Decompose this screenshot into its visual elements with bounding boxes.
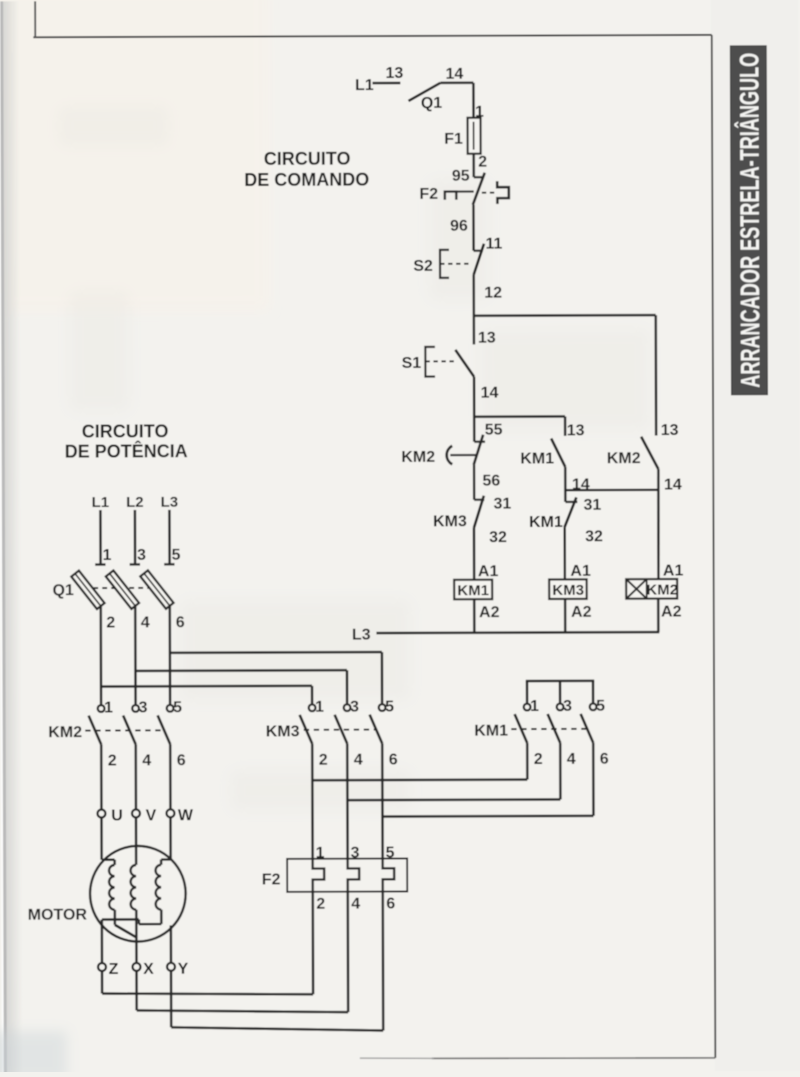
svg-text:31: 31	[493, 495, 511, 512]
svg-text:F2: F2	[262, 871, 281, 888]
svg-text:L1: L1	[355, 77, 374, 94]
svg-text:4: 4	[354, 751, 363, 768]
svg-text:KM2: KM2	[401, 449, 435, 466]
svg-text:32: 32	[585, 528, 603, 545]
svg-text:2: 2	[106, 614, 115, 631]
svg-text:3: 3	[350, 698, 359, 715]
svg-text:V: V	[146, 807, 157, 824]
svg-text:32: 32	[489, 529, 507, 546]
svg-text:KM1: KM1	[520, 450, 554, 467]
svg-text:2: 2	[478, 153, 487, 170]
svg-text:L1: L1	[92, 494, 110, 511]
svg-text:DE COMANDO: DE COMANDO	[244, 170, 369, 190]
svg-text:11: 11	[485, 235, 502, 252]
svg-text:6: 6	[176, 614, 185, 631]
svg-text:Q1: Q1	[421, 95, 443, 112]
svg-text:KM3: KM3	[266, 723, 300, 740]
svg-text:12: 12	[484, 284, 502, 301]
svg-text:L2: L2	[126, 494, 144, 511]
svg-text:1: 1	[530, 698, 539, 715]
svg-text:KM3: KM3	[552, 582, 584, 599]
svg-text:Z: Z	[109, 961, 119, 978]
svg-text:5: 5	[385, 698, 394, 715]
svg-text:2: 2	[319, 752, 328, 769]
svg-text:5: 5	[173, 699, 182, 716]
svg-text:6: 6	[600, 751, 609, 768]
svg-text:6: 6	[389, 751, 398, 768]
svg-text:4: 4	[141, 614, 150, 631]
svg-text:13: 13	[385, 65, 403, 82]
svg-text:A2: A2	[661, 603, 682, 620]
svg-text:96: 96	[450, 218, 468, 235]
svg-text:3: 3	[351, 844, 360, 861]
svg-text:KM1: KM1	[457, 582, 489, 599]
svg-text:L3: L3	[161, 494, 179, 511]
svg-text:CIRCUITO: CIRCUITO	[82, 421, 169, 441]
svg-text:S1: S1	[402, 355, 422, 372]
svg-text:KM2: KM2	[48, 724, 82, 741]
svg-text:KM2: KM2	[646, 582, 678, 599]
svg-text:4: 4	[142, 752, 151, 769]
svg-text:KM1: KM1	[529, 514, 563, 531]
svg-text:X: X	[143, 961, 154, 978]
svg-text:4: 4	[567, 751, 576, 768]
svg-text:95: 95	[452, 168, 470, 185]
svg-text:2: 2	[316, 896, 325, 913]
svg-text:L3: L3	[352, 626, 371, 643]
svg-text:CIRCUITO: CIRCUITO	[264, 149, 351, 169]
svg-text:A1: A1	[478, 563, 499, 580]
svg-text:S2: S2	[413, 258, 433, 275]
svg-text:U: U	[111, 807, 123, 824]
svg-text:31: 31	[583, 497, 601, 514]
svg-text:6: 6	[386, 895, 395, 912]
svg-text:A2: A2	[571, 604, 592, 621]
svg-text:MOTOR: MOTOR	[28, 906, 88, 923]
svg-text:5: 5	[596, 698, 605, 715]
svg-text:A1: A1	[570, 563, 591, 580]
svg-text:13: 13	[661, 422, 679, 439]
svg-text:13: 13	[567, 422, 585, 439]
svg-text:3: 3	[137, 547, 146, 564]
svg-text:DE POTÊNCIA: DE POTÊNCIA	[65, 440, 188, 461]
svg-text:3: 3	[139, 699, 148, 716]
svg-text:2: 2	[534, 751, 543, 768]
svg-text:14: 14	[664, 476, 682, 493]
svg-text:14: 14	[481, 384, 499, 401]
svg-text:5: 5	[386, 844, 395, 861]
svg-text:1: 1	[315, 699, 324, 716]
svg-text:55: 55	[485, 421, 503, 438]
svg-text:F2: F2	[419, 186, 438, 203]
svg-text:1: 1	[103, 547, 112, 564]
svg-text:14: 14	[445, 66, 463, 83]
svg-text:1: 1	[316, 845, 325, 862]
svg-text:KM1: KM1	[474, 722, 508, 739]
svg-text:F1: F1	[444, 131, 463, 148]
svg-text:KM3: KM3	[433, 513, 467, 530]
svg-text:2: 2	[108, 752, 117, 769]
svg-text:ARRANCADOR ESTRELA-TRIÂNGULO: ARRANCADOR ESTRELA-TRIÂNGULO	[733, 53, 765, 388]
svg-text:3: 3	[563, 698, 572, 715]
svg-text:1: 1	[104, 699, 113, 716]
svg-text:KM2: KM2	[607, 450, 641, 467]
svg-text:Q1: Q1	[52, 582, 74, 599]
svg-text:Y: Y	[178, 961, 189, 978]
svg-text:W: W	[178, 807, 194, 824]
svg-text:A1: A1	[663, 562, 684, 579]
svg-text:4: 4	[351, 895, 360, 912]
svg-text:5: 5	[172, 547, 181, 564]
svg-text:6: 6	[177, 752, 186, 769]
svg-text:56: 56	[482, 472, 500, 489]
svg-text:13: 13	[478, 329, 496, 346]
svg-text:A2: A2	[479, 604, 500, 621]
